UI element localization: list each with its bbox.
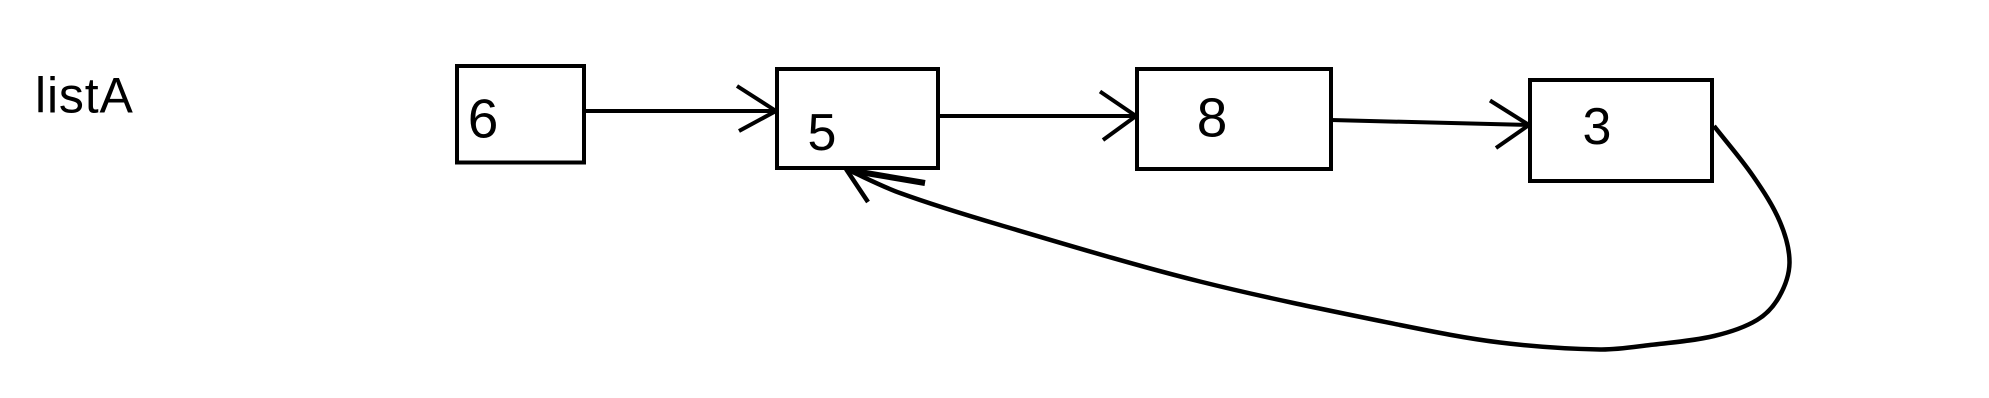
svg-text:8: 8 [1197,87,1228,149]
svg-text:6: 6 [468,88,499,150]
svg-text:listA: listA [35,68,134,124]
svg-text:3: 3 [1583,98,1612,156]
svg-text:5: 5 [808,104,837,162]
